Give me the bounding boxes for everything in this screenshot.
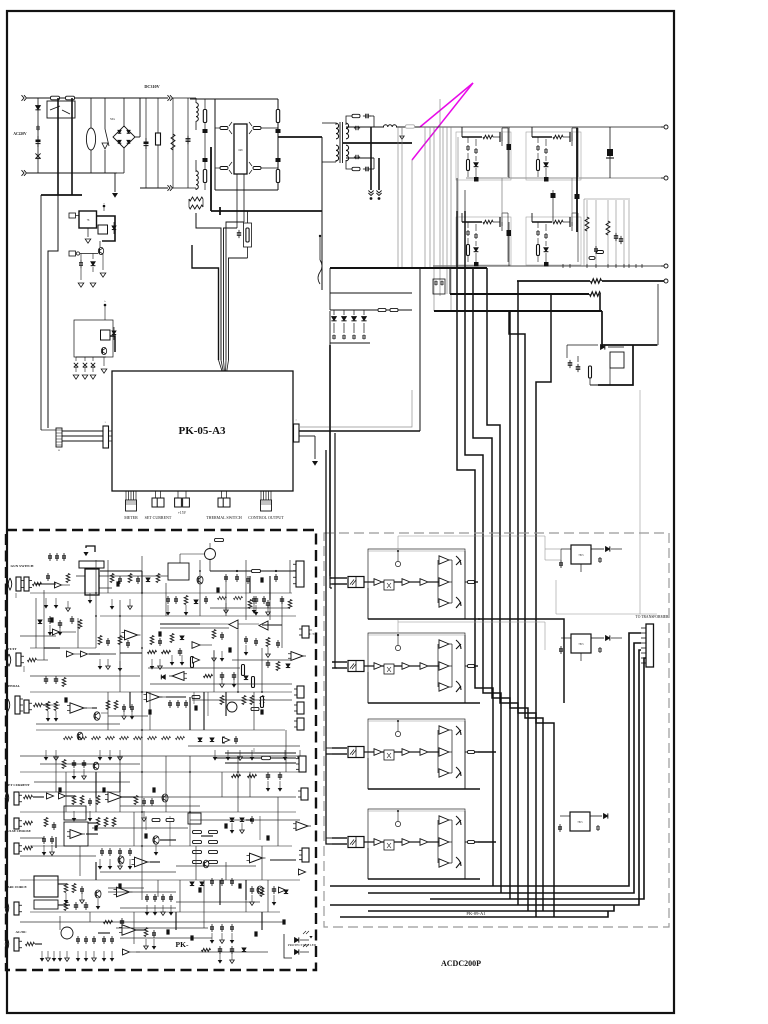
- resistor R5: [276, 170, 279, 183]
- rail: [210, 570, 296, 572]
- ground G120a: [119, 750, 121, 757]
- wire seg 36,584: [36, 583, 56, 585]
- wire rail OUT3: [433, 265, 664, 267]
- wire seg 246,820: [246, 819, 252, 821]
- resistor R124a: [120, 736, 129, 739]
- ground G104d: [103, 951, 105, 958]
- ground G110b: [109, 859, 111, 866]
- op-amp U22: [70, 703, 84, 714]
- wire net x166: [165, 756, 167, 812]
- connector SET CURRENT: [154, 491, 156, 498]
- connector stub: [69, 251, 76, 256]
- node 142,846: [141, 845, 143, 847]
- terminal OUT1: [664, 125, 668, 129]
- svg-text:7815: 7815: [578, 554, 584, 557]
- wire net y820: [190, 819, 300, 821]
- wire net y792: [20, 791, 120, 793]
- capacitor C72f: [71, 616, 73, 619]
- wire net x44: [43, 590, 45, 660]
- wire net y938: [120, 937, 212, 939]
- bottom rail heavy: [368, 878, 480, 880]
- wire seg 120,772: [119, 772, 121, 792]
- wire secondary bot: [346, 157, 374, 159]
- input connector: [332, 747, 347, 749]
- node tick 587: [586, 264, 588, 268]
- rails: [30, 845, 292, 847]
- cap C5: [203, 158, 208, 162]
- wire net x290: [289, 560, 291, 593]
- channel box: [368, 633, 465, 703]
- wire link ch1-ch2: [478, 619, 564, 703]
- buffer: [192, 642, 200, 649]
- wire heavy: [110, 336, 115, 352]
- connector J1 AC in L: [22, 95, 25, 101]
- capacitor C155a: [154, 894, 156, 897]
- capacitor C168_932: [166, 929, 169, 934]
- capacitor C22: [353, 335, 355, 337]
- ground G215a: [214, 750, 216, 757]
- output: [468, 664, 475, 667]
- resistor R68a: [64, 736, 73, 739]
- wire seg 226,692: [225, 692, 227, 716]
- wires: [30, 647, 96, 649]
- wire seg 35,944: [35, 943, 42, 945]
- input jack: [7, 654, 11, 666]
- diode: [146, 578, 150, 582]
- pin 1: [641, 627, 646, 629]
- regulator cluster 1: [571, 545, 591, 564]
- box small: [188, 813, 201, 824]
- diode D6: [92, 254, 94, 260]
- svg-text:7815: 7815: [577, 821, 583, 824]
- wire ch3 out: [478, 751, 496, 753]
- capacitor C284_922: [282, 919, 285, 924]
- wire seg 160,840: [160, 839, 176, 841]
- wire net x238: [237, 756, 239, 812]
- cell outline: [456, 132, 511, 180]
- wire heavy: [576, 128, 578, 232]
- snubber cluster: [569, 360, 571, 363]
- connector X3 right: [294, 424, 300, 442]
- op-amp U30: [117, 887, 130, 897]
- wire net x222: [221, 772, 223, 797]
- wire secondary top: [346, 126, 384, 128]
- wire net x66: [65, 772, 67, 812]
- wire: [215, 167, 220, 169]
- mosfet Q5 cell: [462, 136, 482, 138]
- svg-text:2T/4T: 2T/4T: [7, 647, 17, 651]
- top rail: [368, 550, 465, 552]
- wire v458: [457, 137, 459, 268]
- node tick 629: [628, 264, 630, 268]
- resistor R6: [244, 223, 252, 247]
- transistor 2: [257, 886, 263, 894]
- res caps 2: [150, 636, 154, 645]
- svg-text:SET CURRENT: SET CURRENT: [6, 783, 30, 787]
- res: [212, 630, 216, 639]
- wire net x262: [261, 846, 263, 880]
- pot P1: [205, 549, 216, 560]
- wires to board: [62, 430, 103, 432]
- wire: [214, 99, 216, 190]
- IC U20 box: [85, 569, 99, 595]
- cap C2: [157, 98, 159, 188]
- wire heavy down: [378, 158, 380, 190]
- connector X1 hatched: [56, 428, 62, 447]
- input connector: [332, 661, 347, 663]
- SCR Q0: [102, 143, 108, 149]
- node tick 563: [562, 264, 564, 268]
- ground G268_612: [267, 605, 269, 612]
- wire seg 201,836: [201, 835, 213, 837]
- wire net x80: [79, 846, 81, 876]
- wire: [321, 137, 323, 290]
- capacitor C146_836: [144, 833, 147, 838]
- driver triangles: [439, 640, 449, 648]
- input jack: [5, 902, 9, 914]
- ground G56a: [55, 750, 57, 757]
- wire net x200: [199, 560, 201, 616]
- ground G84_776: [83, 769, 85, 776]
- capacitor C52_620: [50, 617, 53, 622]
- wire seg 56,837: [55, 837, 57, 848]
- resistor R3: [204, 145, 206, 190]
- op-amp U27: [135, 857, 148, 867]
- wire seg 58,884: [58, 883, 66, 885]
- wire seg 226,758: [226, 757, 240, 759]
- inductor L1: [195, 98, 197, 103]
- wire v434: [433, 127, 435, 311]
- svg-text:PROTECTION LED: PROTECTION LED: [288, 943, 317, 947]
- wire bundle: [196, 213, 221, 360]
- output: [468, 580, 475, 583]
- transistors: [456, 556, 461, 565]
- annotation line magenta: [420, 83, 473, 127]
- wire center tap heavy: [343, 142, 412, 144]
- top rail: [368, 810, 465, 812]
- pot P2: [227, 702, 237, 712]
- ground G60d: [59, 951, 61, 958]
- top rect: [79, 561, 104, 568]
- res/caps: [106, 701, 110, 710]
- node 96,616: [95, 615, 97, 617]
- node tick 636: [635, 264, 637, 268]
- cap C11: [609, 127, 611, 178]
- capacitor C50f: [49, 616, 51, 619]
- ground G256_612: [255, 605, 257, 612]
- mosfet Q7 cell: [462, 221, 482, 223]
- wire bus to connector: [225, 752, 296, 754]
- wire DC bus bottom: [140, 187, 168, 189]
- connector +15V: [177, 491, 179, 498]
- svg-text:STa: STa: [110, 117, 115, 121]
- node 200,571: [199, 570, 201, 572]
- caps top: [49, 553, 51, 556]
- wire seg 130,692: [129, 692, 131, 708]
- wire net x108: [107, 560, 109, 593]
- wire net y797: [120, 796, 296, 798]
- diode D10: [333, 310, 335, 315]
- bus staircase: [602, 311, 657, 345]
- pulse choose connectors: [14, 818, 19, 829]
- wire rail OUT1: [420, 126, 663, 128]
- pot P3: [61, 927, 73, 939]
- resistor R180a: [176, 736, 185, 739]
- capacitor C226_826: [224, 823, 227, 828]
- stair verticals lower: [509, 311, 543, 911]
- mosfet Q6 cell: [532, 136, 552, 138]
- rail: [30, 911, 280, 913]
- capacitor C268e: [267, 600, 269, 603]
- wire AC line top: [27, 97, 140, 99]
- wire: [456, 178, 458, 211]
- capacitor C256_934: [254, 931, 257, 936]
- wire seg 33,797: [33, 796, 44, 798]
- node tick 570: [569, 264, 571, 268]
- input jack: [5, 792, 9, 804]
- pin 8: [641, 662, 646, 664]
- input jack: [5, 938, 9, 950]
- channel box: [368, 719, 465, 789]
- capacitor C240_886: [238, 883, 241, 888]
- caps: [225, 574, 227, 577]
- resistor R138a: [134, 736, 143, 739]
- ground G252a: [251, 750, 253, 757]
- buffer: [123, 949, 130, 955]
- driver IC U2: [234, 124, 247, 174]
- wire net x268: [267, 880, 269, 912]
- wire net y782: [34, 781, 130, 783]
- wire net x96: [95, 560, 97, 648]
- svg-text:PK-09-A1: PK-09-A1: [466, 911, 486, 916]
- ground G222_684: [221, 677, 223, 684]
- buffers: [47, 793, 54, 799]
- wire rc608: [607, 200, 609, 266]
- terminal: [103, 205, 106, 208]
- node 142,692: [141, 691, 143, 693]
- capacitor C196_708: [194, 705, 197, 710]
- wire rc629: [628, 200, 630, 266]
- wires: [30, 592, 292, 594]
- wire: [299, 430, 420, 432]
- wire seg 120,653: [120, 652, 142, 654]
- wire seg 44,648: [44, 647, 60, 649]
- capacitor C20: [333, 335, 335, 337]
- resistor R4: [277, 99, 279, 145]
- fuse F1: [51, 96, 60, 100]
- ground G120b: [119, 859, 121, 866]
- transistor: [162, 794, 168, 802]
- IC U3: [79, 211, 97, 228]
- wire net y952: [136, 951, 268, 953]
- board PK-05-A3: [112, 371, 293, 491]
- capacitor C118_584: [116, 581, 119, 586]
- node 238,772: [237, 771, 239, 773]
- node 142,772: [141, 771, 143, 773]
- res caps: [98, 636, 102, 645]
- wire seg 250,576: [249, 576, 251, 593]
- svg-text:PK-: PK-: [176, 940, 189, 949]
- left tri 2: [259, 621, 268, 630]
- input jack: [8, 578, 12, 590]
- wire: [80, 253, 98, 255]
- wire: [105, 136, 113, 138]
- wire seg 150,862: [150, 861, 160, 863]
- connector THERMAL SWITCH: [220, 491, 222, 498]
- capacitor C160_634: [158, 631, 161, 636]
- ground G163c: [162, 905, 164, 912]
- resistor R2: [204, 99, 206, 145]
- wire: [123, 148, 125, 173]
- wire v398: [397, 127, 399, 268]
- wire seg 270,860: [270, 859, 296, 861]
- IGBT Q1: [220, 127, 228, 130]
- dashed border driver board: [324, 533, 669, 927]
- wire gray: [639, 390, 641, 614]
- node tick 596: [595, 264, 597, 268]
- cell outline: [526, 132, 581, 180]
- mid rails: [20, 771, 300, 773]
- wire net x254: [253, 692, 255, 730]
- ground G155c: [154, 905, 156, 912]
- resistor: [33, 582, 42, 586]
- resistor R9: [591, 279, 602, 283]
- input jack: [6, 699, 10, 711]
- terminal: [104, 304, 107, 307]
- capacitor C96_828: [94, 825, 97, 830]
- wire: [215, 127, 220, 129]
- ground G220_960: [219, 953, 221, 960]
- buffer: [279, 887, 286, 893]
- wire net y764: [40, 763, 140, 765]
- ground G268_788: [267, 781, 269, 788]
- ground G74_776: [73, 769, 75, 776]
- IGBT Q4: [253, 167, 261, 170]
- wire seg 204,692: [203, 692, 205, 730]
- svg-text:TO TRANSFORMER: TO TRANSFORMER: [636, 615, 669, 619]
- wire v451: [450, 127, 452, 311]
- wire seg 270,576: [269, 576, 271, 600]
- wire net y908: [120, 907, 176, 909]
- wire v447: [446, 127, 448, 294]
- op-amp U24: [108, 792, 122, 803]
- cap C6: [238, 230, 240, 233]
- connector J2 AC in N: [22, 170, 25, 176]
- transistors: [456, 726, 461, 735]
- wire net x270: [269, 576, 271, 620]
- thermal switch STa: [104, 98, 106, 129]
- bottom rail heavy: [368, 702, 480, 704]
- ground G300a: [299, 750, 301, 757]
- svg-text:AC/DC: AC/DC: [15, 930, 27, 934]
- connector METER: [125, 491, 127, 500]
- svg-text:METER: METER: [124, 515, 138, 520]
- caps right: [211, 878, 213, 881]
- svg-text:ARC FORCE: ARC FORCE: [7, 885, 27, 889]
- ground: [87, 228, 89, 237]
- pin 5: [641, 647, 646, 649]
- svg-text:1: 1: [104, 422, 105, 424]
- wire seg 66,796: [66, 795, 74, 797]
- svg-text:PULSE CHOOSE: PULSE CHOOSE: [5, 829, 31, 833]
- caps: [43, 836, 45, 839]
- cell outline: [456, 217, 511, 265]
- bottom rail heavy: [368, 788, 480, 790]
- wire net y668: [148, 667, 240, 669]
- diode D5: [113, 222, 115, 234]
- input connector: [332, 577, 347, 579]
- bus verticals: [457, 211, 493, 886]
- wire: [433, 127, 435, 311]
- heavy bus risers to connector: [330, 633, 641, 886]
- res network: [110, 574, 114, 583]
- wire seg 88,823: [88, 822, 98, 824]
- channel box: [368, 549, 465, 619]
- wire net y576: [108, 575, 168, 577]
- wire net x56: [55, 756, 57, 792]
- wire seg 89,654: [89, 653, 100, 655]
- wire: [57, 98, 59, 195]
- node 142,812: [141, 811, 143, 813]
- bottom caps: [211, 924, 213, 927]
- mid box: [168, 563, 189, 580]
- wire seg 160,624: [160, 623, 200, 625]
- wire v402: [401, 127, 403, 268]
- capacitor C218_590: [216, 587, 219, 592]
- IGBT Q2: [253, 127, 261, 130]
- wire net y724: [36, 723, 120, 725]
- ground G42d: [41, 951, 43, 958]
- set current connector: [14, 792, 19, 805]
- left tri 1: [229, 620, 238, 629]
- annotation line magenta 2: [412, 83, 473, 160]
- pin 3: [641, 637, 646, 639]
- wire net x96: [95, 772, 97, 812]
- resistor R166a: [162, 736, 171, 739]
- capacitor C60f: [59, 620, 61, 623]
- wire net y716: [108, 715, 148, 717]
- ground G147c: [146, 905, 148, 912]
- svg-text:7815: 7815: [578, 643, 584, 646]
- wire net x166: [165, 583, 167, 616]
- resistor R10: [590, 292, 601, 296]
- wire seg 86,834: [86, 833, 98, 835]
- op-amp U29: [296, 822, 308, 831]
- res block: [72, 796, 76, 805]
- transistor: [197, 576, 203, 584]
- node 96,593: [95, 592, 97, 594]
- wire heavy bus C: [434, 310, 602, 312]
- wire seg 246,880: [245, 880, 247, 900]
- wire: [329, 345, 331, 576]
- channel box: [368, 809, 465, 879]
- wire rc587: [586, 200, 588, 266]
- wire net y922: [20, 921, 284, 923]
- svg-text:PK-05-A3: PK-05-A3: [178, 425, 226, 437]
- wire: [40, 195, 42, 430]
- wire net x134: [133, 812, 135, 846]
- capacitor C262_580: [260, 577, 263, 582]
- right connector: [296, 561, 304, 587]
- junction: [219, 207, 221, 215]
- svg-text:DC310V: DC310V: [144, 84, 159, 89]
- node tick 642: [641, 264, 643, 268]
- diode D13: [363, 310, 365, 315]
- ground G112d: [111, 951, 113, 958]
- wire seg 262,912: [261, 912, 263, 930]
- wire seg 166,697: [166, 696, 186, 698]
- snubber top: resistor R7 cap C7: [346, 116, 352, 125]
